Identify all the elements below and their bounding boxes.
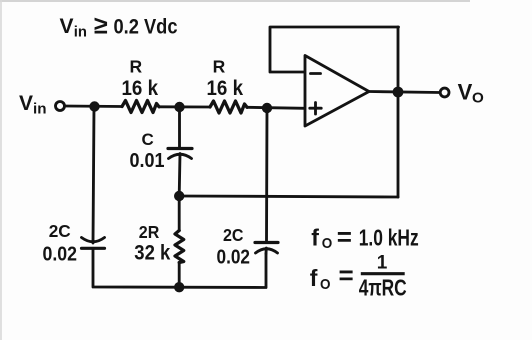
svg-text:R: R bbox=[213, 57, 226, 77]
svg-text:=: = bbox=[337, 222, 352, 252]
svg-text:4πRC: 4πRC bbox=[359, 274, 407, 300]
svg-text:16 k: 16 k bbox=[207, 77, 244, 100]
svg-text:O: O bbox=[472, 90, 484, 107]
svg-text:2R: 2R bbox=[139, 222, 160, 242]
svg-text:in: in bbox=[74, 24, 87, 41]
svg-text:0.02: 0.02 bbox=[43, 243, 78, 265]
svg-text:V: V bbox=[19, 92, 33, 115]
svg-text:=: = bbox=[339, 260, 354, 290]
svg-text:0.2 Vdc: 0.2 Vdc bbox=[114, 16, 178, 39]
svg-text:1.0 kHz: 1.0 kHz bbox=[359, 225, 419, 251]
svg-text:V: V bbox=[458, 79, 473, 104]
svg-text:≥: ≥ bbox=[94, 11, 108, 39]
svg-text:2C: 2C bbox=[49, 221, 71, 241]
svg-text:R: R bbox=[130, 57, 143, 77]
svg-text:f: f bbox=[311, 225, 319, 251]
svg-text:in: in bbox=[33, 101, 47, 118]
svg-text:V: V bbox=[60, 15, 74, 38]
svg-text:16 k: 16 k bbox=[122, 77, 159, 100]
svg-text:0.01: 0.01 bbox=[130, 150, 165, 172]
svg-text:f: f bbox=[310, 265, 318, 291]
svg-text:1: 1 bbox=[377, 253, 388, 274]
svg-text:2C: 2C bbox=[223, 225, 244, 245]
svg-text:32 k: 32 k bbox=[134, 241, 170, 265]
svg-text:C: C bbox=[142, 130, 154, 149]
svg-text:0.02: 0.02 bbox=[217, 246, 251, 268]
svg-text:O: O bbox=[322, 235, 333, 252]
svg-text:O: O bbox=[320, 276, 331, 293]
